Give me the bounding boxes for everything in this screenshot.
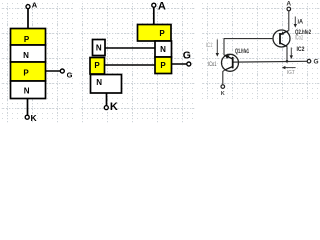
svg-text:P: P (23, 68, 29, 77)
svg-text:G: G (313, 58, 318, 65)
svg-text:P: P (94, 61, 100, 70)
svg-text:G: G (183, 49, 191, 61)
svg-text:IC1: IC1 (206, 43, 213, 49)
svg-text:N: N (160, 45, 166, 54)
svg-text:iA: iA (298, 20, 304, 26)
svg-text:ICo2: ICo2 (295, 36, 304, 42)
svg-text:P: P (24, 35, 30, 44)
svg-text:N: N (23, 51, 29, 60)
svg-text:A: A (158, 0, 166, 12)
svg-text:IGT: IGT (287, 70, 296, 76)
svg-text:P: P (159, 29, 165, 38)
svg-text:N: N (96, 43, 102, 52)
svg-text:IC2: IC2 (297, 47, 306, 53)
svg-text:K: K (110, 101, 118, 113)
svg-text:N: N (96, 78, 102, 87)
svg-text:Q1.hfe1: Q1.hfe1 (235, 49, 249, 55)
svg-text:N: N (24, 86, 30, 95)
svg-text:P: P (160, 61, 166, 70)
svg-text:G: G (67, 70, 73, 79)
svg-text:K: K (31, 113, 38, 123)
svg-text:A: A (286, 1, 291, 8)
svg-text:A: A (32, 1, 38, 10)
svg-text:K: K (221, 91, 225, 97)
svg-text:ICo1: ICo1 (208, 62, 217, 68)
